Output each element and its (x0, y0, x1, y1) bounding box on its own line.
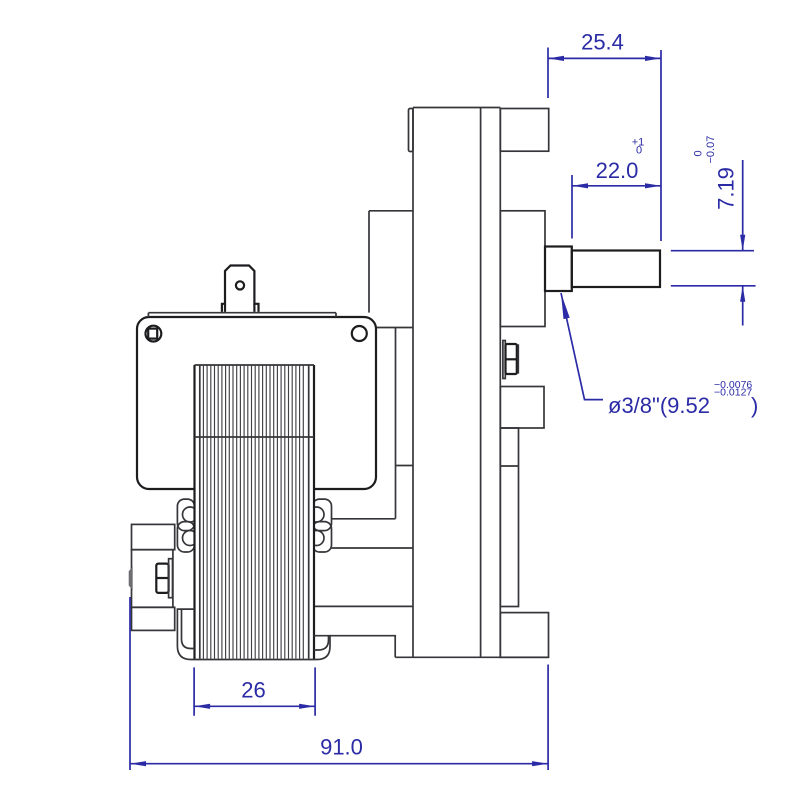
gearbox top edge (413, 107, 500, 109)
left bracket bottom box (132, 607, 175, 630)
dim 25.4 line (548, 57, 661, 59)
gearbox mid boss (500, 211, 545, 327)
cover bolt head mid line (506, 358, 517, 360)
svg-text:26: 26 (241, 678, 265, 703)
base step plate (330, 636, 395, 658)
gearbox housing left edge (412, 108, 414, 658)
stack inner edge right (308, 365, 310, 659)
svg-text:25.4: 25.4 (581, 30, 624, 55)
gearbox bottom-right boss (500, 613, 548, 658)
dim 91.0 arrows (130, 761, 548, 766)
left bracket mid box (132, 550, 173, 608)
dim 25.4 ext left (547, 48, 549, 99)
output hub (545, 247, 572, 292)
stack outer edges (195, 365, 315, 660)
svg-text:0: 0 (636, 145, 642, 157)
bracket line y327 (376, 327, 413, 329)
left bracket top box (132, 524, 175, 549)
bearing boss upper-right a (313, 499, 332, 530)
gearbox plate vertical line (480, 108, 482, 658)
dim 7.19 line lower (742, 286, 744, 326)
spade terminal hole (236, 281, 244, 289)
left screw square slot (148, 329, 157, 339)
bearing hub line y519 (332, 518, 396, 520)
motor can rounded rect (137, 317, 376, 489)
gearbox cover vertical line (499, 108, 501, 658)
svg-text:ø3/8"(9.52: ø3/8"(9.52 (608, 393, 710, 418)
dim 7.19 arrow down (740, 235, 745, 251)
leader arrowhead (561, 293, 570, 319)
svg-text:7.19: 7.19 (714, 167, 739, 210)
bearing boss upper-left b (177, 522, 194, 552)
dim 91.0 ext right (547, 665, 549, 771)
dim 22.0 arrows (572, 183, 661, 188)
lamination stack fill (195, 365, 315, 660)
frame line y548 (332, 547, 413, 549)
gearbox bearing column (500, 428, 518, 607)
right screw circle (352, 326, 367, 341)
bearing circle upper-right b (309, 531, 324, 546)
frame line y606 (314, 605, 413, 607)
top bracket top edge (369, 210, 413, 212)
leader arrow shaft dia (561, 293, 603, 400)
bearing boss upper-right b (313, 522, 332, 552)
gearbox top-left tab (409, 109, 414, 152)
mid bracket vertical (395, 328, 397, 519)
hex head mid line (156, 577, 168, 579)
cover bolt head (506, 344, 517, 374)
gearbox bottom edge (395, 656, 548, 658)
adjusting bolt hex head (156, 564, 168, 593)
dim 7.19 ext bottom (671, 285, 756, 287)
output shaft (572, 251, 660, 288)
bearing column joint line (500, 465, 518, 467)
dim 26 arrows (194, 704, 315, 709)
top bracket left edge (368, 211, 370, 313)
svg-text:22.0: 22.0 (596, 158, 639, 183)
bearing boss upper-left a (177, 499, 194, 530)
dim 7.19 line upper (742, 160, 744, 251)
bottom bar inner right fillet (314, 636, 329, 650)
dim 7.19 ext top (671, 250, 754, 252)
bearing circle upper-left b (183, 531, 198, 546)
stack top edge (195, 364, 315, 366)
bearing circle upper-right a (309, 507, 324, 522)
dim 26 line (194, 705, 315, 707)
dim 26 ext lines (194, 667, 315, 715)
cover bolt seat line (517, 344, 519, 373)
svg-text:−0.0127: −0.0127 (714, 387, 752, 399)
bolt gray tip (129, 567, 133, 591)
left screw circle (146, 326, 162, 342)
svg-text:91.0: 91.0 (320, 735, 363, 760)
cover bolt washer plate (503, 341, 505, 379)
dim 91.0 ext left (129, 597, 131, 770)
lamination hatch (203, 365, 303, 659)
spade terminal blade (222, 266, 259, 312)
stack mid line (195, 436, 315, 438)
mid bracket joint (396, 465, 414, 467)
dim 25.4/22.0 shared ext right (660, 50, 662, 241)
bearing circle upper-left a (183, 507, 198, 522)
dim 22.0 ext left (571, 175, 573, 239)
dim 7.19 arrow up (740, 286, 745, 302)
gearbox top-right boss (500, 109, 548, 152)
bolt washer plate (169, 559, 173, 598)
bottom bar outline (177, 609, 330, 659)
bottom bar inner left detail (182, 609, 195, 648)
spade terminal foot lines (225, 304, 254, 312)
dim 91.0 line (130, 763, 548, 765)
svg-text:): ) (751, 393, 758, 418)
gearbox mid block 2 (500, 387, 544, 429)
dim 22.0 line (572, 185, 661, 187)
stack inner edge left (199, 365, 201, 659)
motor top plate (148, 313, 336, 317)
dim 25.4 arrows (548, 56, 661, 61)
